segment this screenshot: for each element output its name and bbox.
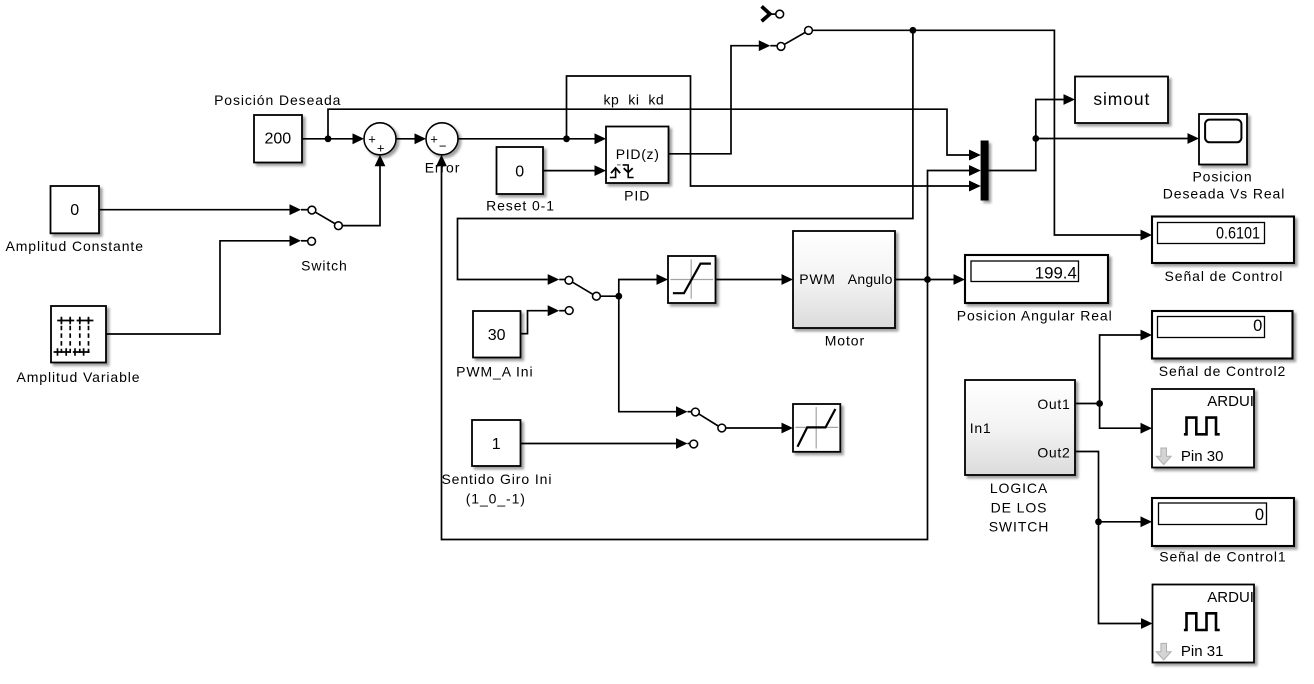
constant 0 Amplitud Constante	[6, 186, 144, 254]
svg-text:0: 0	[70, 202, 79, 219]
svg-text:+: +	[377, 141, 385, 156]
wire Mux out branch to Scope	[1036, 133, 1199, 144]
wire Out1 branch to Arduino Pin 30	[1100, 404, 1152, 434]
constant 0 Reset 0-1	[486, 147, 555, 214]
svg-text:kp ki kd: kp ki kd	[604, 91, 665, 107]
svg-text:(1_0_-1): (1_0_-1)	[466, 490, 526, 506]
svg-text:PWM_A Ini: PWM_A Ini	[456, 363, 533, 379]
wire Motor out feedback to Sum2 bottom	[436, 155, 927, 540]
wire PID out to top switch in2	[669, 40, 777, 154]
wire Switch out to Sum1 bottom	[343, 155, 386, 226]
node junction top switch out	[910, 27, 917, 34]
svg-text:ARDUINO: ARDUINO	[1207, 393, 1276, 410]
arduino digital output Pin 30	[1152, 389, 1276, 468]
switch direction select	[690, 408, 726, 448]
svg-text:Out2: Out2	[1037, 445, 1070, 461]
svg-text:+: +	[430, 132, 438, 147]
subsystem Motor	[793, 231, 895, 349]
wire Error branch over PID to Mux in3	[567, 76, 981, 191]
svg-text:200: 200	[264, 131, 291, 148]
svg-text:Posicion Angular Real: Posicion Angular Real	[957, 308, 1113, 324]
source Amplitud Variable	[17, 306, 141, 385]
wire PWM_A Ini to PWM switch in2	[521, 305, 565, 333]
svg-text:Posicion: Posicion	[1192, 168, 1252, 184]
svg-text:Out1: Out1	[1037, 396, 1070, 412]
node junction Posicion Deseada	[325, 135, 332, 142]
svg-text:0.6101: 0.6101	[1216, 224, 1260, 242]
svg-text:Error: Error	[425, 159, 461, 175]
svg-text:ARDUINO: ARDUINO	[1207, 589, 1276, 606]
svg-text:DE LOS: DE LOS	[991, 499, 1048, 515]
svg-text:0: 0	[1255, 506, 1264, 524]
switch PWM select	[565, 276, 600, 314]
wire Motor Angulo out to Posicion Angular Real display	[895, 274, 965, 285]
svg-text:−: −	[439, 139, 447, 154]
node junction Out1	[1096, 400, 1103, 407]
display Senal de Control1	[1152, 498, 1294, 564]
svg-text:Señal de Control1: Señal de Control1	[1159, 548, 1286, 564]
constant 30 PWM_A Ini	[456, 311, 533, 379]
display Senal de Control2	[1152, 311, 1293, 379]
svg-text:199.4: 199.4	[1035, 264, 1077, 282]
saturation block	[668, 256, 716, 303]
display Posicion Angular Real	[957, 255, 1113, 324]
node junction Motor out	[924, 276, 931, 283]
wire LOGICA Out1 to Senal de Control2 display	[1075, 330, 1152, 404]
wire PWM switch branch down to direction switch in1	[619, 296, 691, 417]
svg-text:PID: PID	[624, 187, 650, 203]
wire LOGICA Out2 to Senal de Control1 display	[1075, 452, 1152, 528]
svg-text:Pin 31: Pin 31	[1181, 643, 1224, 660]
svg-text:30: 30	[488, 327, 506, 344]
node junction Out2	[1095, 518, 1102, 525]
svg-text:0: 0	[1253, 317, 1262, 335]
dead zone block	[793, 404, 840, 452]
svg-text:PID(z): PID(z)	[616, 146, 660, 162]
wire PWM switch out to Saturation	[601, 274, 668, 296]
svg-text:Deseada Vs Real: Deseada Vs Real	[1163, 185, 1285, 201]
sum S2 Error	[425, 123, 461, 176]
wire Mux out to simout	[989, 94, 1075, 170]
wire top switch out to Senal de Control display	[813, 30, 1152, 240]
svg-text:LOGICA: LOGICA	[990, 480, 1048, 496]
wire Sum1 to Sum2	[396, 133, 426, 144]
wire Amplitud Constante to Switch in1	[99, 204, 308, 215]
node junction Mux out	[1032, 135, 1039, 142]
svg-text:PWM: PWM	[799, 271, 835, 287]
svg-text:1: 1	[492, 436, 501, 453]
wire Saturation to Motor	[716, 274, 794, 285]
svg-text:simout: simout	[1093, 89, 1150, 109]
display Senal de Control	[1152, 217, 1294, 285]
mux Mux1	[969, 141, 989, 201]
wire Reset 0-1 to PID in2	[543, 165, 606, 176]
wire Sentido Giro Ini to direction switch in2	[521, 438, 690, 449]
wire Sum2 to PID in1	[458, 133, 606, 144]
svg-text:In1: In1	[970, 420, 992, 436]
svg-text:Señal de Control2: Señal de Control2	[1159, 363, 1286, 379]
svg-text:Pin 30: Pin 30	[1181, 448, 1224, 465]
wire direction switch out to Dead Zone	[726, 423, 793, 434]
svg-text:Posición Deseada: Posición Deseada	[214, 92, 341, 108]
svg-text:SWITCH: SWITCH	[989, 518, 1050, 534]
svg-text:Motor: Motor	[825, 333, 865, 349]
constant 200 Posicion Deseada	[214, 92, 341, 162]
wire Out2 branch to Arduino Pin 31	[1099, 522, 1153, 629]
wire Motor out branch up to Mux in2	[928, 165, 981, 279]
arduino digital output Pin 31	[1153, 585, 1277, 663]
wire Posicion Deseada to Mux in1	[328, 109, 981, 160]
svg-text:+: +	[368, 132, 376, 147]
node junction PWM switch out	[615, 293, 622, 300]
sum S1	[364, 123, 396, 156]
switch Switch (amplitud)	[301, 206, 348, 273]
wire 200 to Sum1	[302, 133, 364, 144]
svg-text:Reset 0-1: Reset 0-1	[486, 198, 555, 214]
svg-text:Amplitud Variable: Amplitud Variable	[17, 369, 141, 385]
constant 1 Sentido Giro Ini	[441, 420, 552, 506]
svg-text:Sentido Giro Ini: Sentido Giro Ini	[441, 471, 552, 487]
op-block PID	[606, 127, 669, 204]
wire Amplitud Variable to Switch in2	[106, 235, 307, 334]
svg-text:Angulo: Angulo	[848, 271, 893, 287]
node junction Error	[563, 135, 570, 142]
subsystem LOGICA DE LOS SWITCH	[965, 380, 1075, 534]
wire control branch to PWM switch in1	[458, 30, 913, 285]
svg-text:Switch: Switch	[301, 258, 348, 274]
svg-text:0: 0	[515, 163, 524, 180]
scope Posicion Deseada Vs Real	[1163, 114, 1285, 201]
svg-text:Señal de Control: Señal de Control	[1165, 268, 1284, 284]
switch top (control source)	[762, 6, 813, 50]
svg-text:Amplitud Constante: Amplitud Constante	[6, 238, 144, 254]
to-workspace simout	[1075, 77, 1168, 124]
